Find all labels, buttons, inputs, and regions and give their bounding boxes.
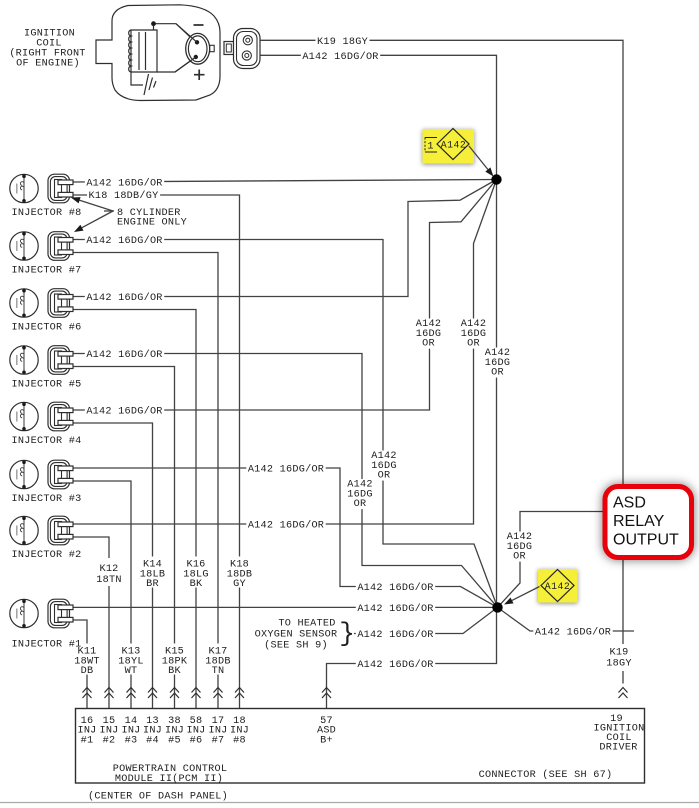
svg-text:#5: #5 (168, 735, 181, 746)
svg-text:TO HEATED: TO HEATED (278, 619, 335, 630)
svg-text:(CENTER OF DASH PANEL): (CENTER OF DASH PANEL) (88, 791, 228, 803)
svg-text:#1: #1 (81, 735, 94, 746)
svg-text:A142: A142 (545, 581, 571, 592)
svg-text:OXYGEN SENSOR: OXYGEN SENSOR (255, 630, 338, 641)
svg-text:#3: #3 (125, 735, 138, 746)
svg-text:INJECTOR #4: INJECTOR #4 (12, 436, 82, 447)
svg-text:OR: OR (491, 368, 504, 379)
svg-text:K19: K19 (609, 648, 628, 659)
svg-text:OF ENGINE): OF ENGINE) (16, 58, 80, 70)
svg-text:A142 16DG/OR: A142 16DG/OR (535, 627, 611, 639)
svg-text:INJECTOR #5: INJECTOR #5 (12, 380, 82, 391)
svg-text:OR: OR (513, 552, 526, 563)
svg-text:1: 1 (427, 142, 433, 153)
svg-text:A142 16DG/OR: A142 16DG/OR (302, 51, 378, 63)
svg-text:K12: K12 (99, 564, 118, 575)
svg-text:GY: GY (233, 579, 246, 590)
svg-text:A142 16DG/OR: A142 16DG/OR (248, 464, 324, 476)
svg-text:K18 18DB/GY: K18 18DB/GY (89, 190, 159, 202)
svg-text:}: } (339, 619, 355, 649)
svg-text:TN: TN (212, 666, 225, 677)
svg-text:ENGINE ONLY: ENGINE ONLY (117, 218, 187, 229)
svg-text:DB: DB (81, 666, 94, 677)
svg-text:DRIVER: DRIVER (599, 743, 637, 754)
svg-text:A142 16DG/OR: A142 16DG/OR (86, 235, 162, 247)
svg-text:OR: OR (354, 499, 367, 510)
svg-text:A142: A142 (441, 140, 467, 151)
svg-text:A142 16DG/OR: A142 16DG/OR (86, 406, 162, 418)
svg-text:K19 18GY: K19 18GY (317, 37, 368, 48)
svg-text:BK: BK (168, 666, 181, 677)
svg-text:OR: OR (467, 339, 480, 350)
svg-text:OUTPUT: OUTPUT (613, 532, 679, 549)
svg-text:INJECTOR #1: INJECTOR #1 (12, 640, 82, 651)
svg-text:(SEE SH 9): (SEE SH 9) (264, 640, 328, 652)
svg-text:INJECTOR #3: INJECTOR #3 (12, 494, 82, 505)
svg-text:OR: OR (378, 471, 391, 482)
svg-text:A142 16DG/OR: A142 16DG/OR (357, 659, 433, 671)
svg-text:WT: WT (125, 666, 138, 677)
svg-text:INJECTOR #7: INJECTOR #7 (12, 266, 82, 277)
svg-text:MODULE II(PCM II): MODULE II(PCM II) (115, 773, 223, 785)
svg-text:A142 16DG/OR: A142 16DG/OR (86, 178, 162, 190)
svg-text:A142 16DG/OR: A142 16DG/OR (86, 349, 162, 361)
svg-text:18TN: 18TN (96, 575, 121, 586)
svg-text:RELAY: RELAY (613, 513, 665, 530)
svg-text:A142 16DG/OR: A142 16DG/OR (357, 582, 433, 594)
svg-text:BK: BK (190, 579, 203, 590)
svg-text:B+: B+ (320, 735, 333, 746)
svg-text:A142 16DG/OR: A142 16DG/OR (357, 629, 433, 641)
svg-text:#8: #8 (233, 735, 246, 746)
svg-text:A142 16DG/OR: A142 16DG/OR (248, 520, 324, 532)
svg-text:A142 16DG/OR: A142 16DG/OR (86, 292, 162, 304)
svg-text:INJECTOR #2: INJECTOR #2 (12, 550, 82, 561)
svg-text:#7: #7 (212, 735, 225, 746)
svg-text:#4: #4 (146, 735, 159, 746)
svg-text:BR: BR (146, 579, 159, 590)
svg-text:OR: OR (422, 339, 435, 350)
svg-text:18GY: 18GY (606, 659, 631, 670)
svg-text:A142 16DG/OR: A142 16DG/OR (357, 603, 433, 615)
svg-text:INJECTOR #8: INJECTOR #8 (12, 208, 82, 219)
svg-text:CONNECTOR (SEE SH 67): CONNECTOR (SEE SH 67) (479, 769, 613, 781)
svg-text:ASD: ASD (613, 495, 646, 512)
svg-text:#6: #6 (190, 735, 203, 746)
svg-text:#2: #2 (103, 735, 116, 746)
svg-text:INJECTOR #6: INJECTOR #6 (12, 323, 82, 334)
